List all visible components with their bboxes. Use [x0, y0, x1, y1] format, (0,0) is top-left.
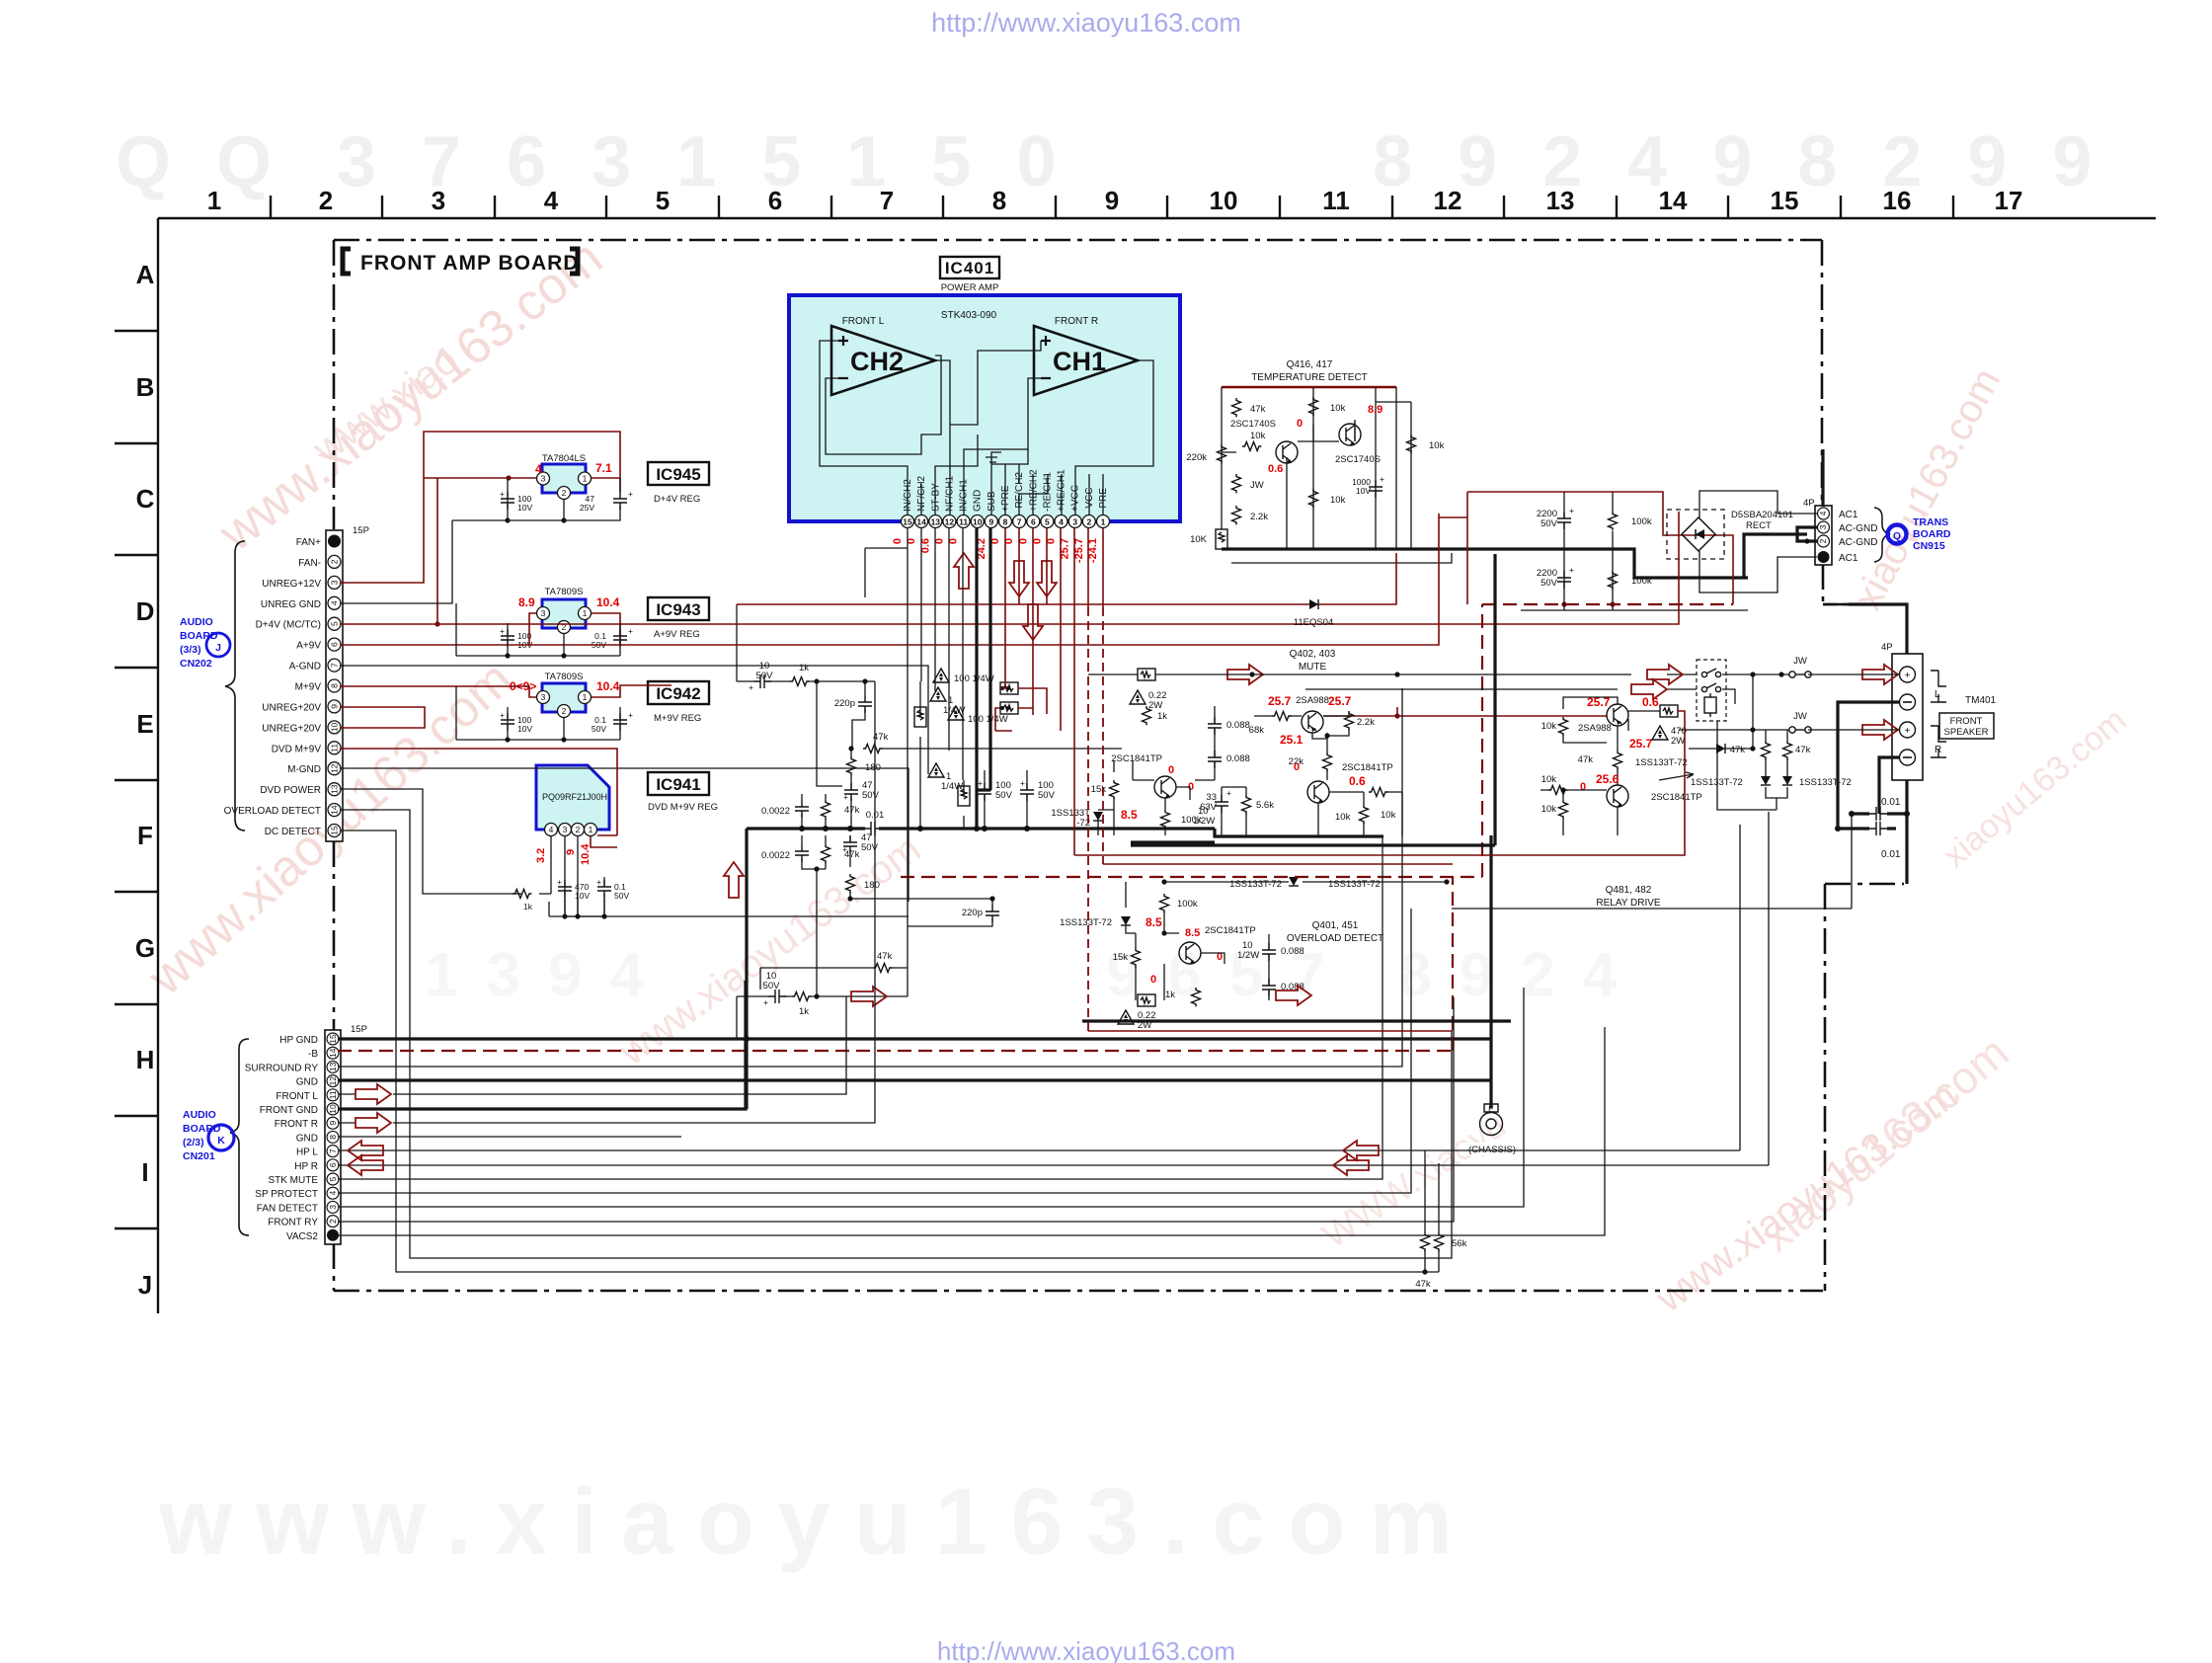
svg-text:17: 17 — [1995, 186, 2023, 215]
svg-text:4: 4 — [544, 186, 559, 215]
svg-text:9: 9 — [565, 849, 577, 855]
svg-text:+: + — [628, 489, 633, 499]
svg-text:2SC1841TP: 2SC1841TP — [1342, 762, 1393, 773]
svg-text:A-GND: A-GND — [289, 662, 321, 673]
op-amp IC401 POWER AMP block — [789, 257, 1180, 521]
svg-text:3: 3 — [432, 186, 445, 215]
capacitor 0.01 series on bus — [864, 822, 882, 835]
svg-text:3: 3 — [563, 825, 568, 834]
svg-text:http://www.xiaoyu163.com: http://www.xiaoyu163.com — [931, 8, 1241, 38]
svg-text:5: 5 — [1045, 517, 1050, 527]
svg-text:14: 14 — [328, 1048, 338, 1058]
svg-text:JW: JW — [1793, 656, 1807, 667]
svg-text:DC DETECT: DC DETECT — [265, 827, 321, 837]
svg-text:15k: 15k — [1091, 784, 1107, 795]
input network CH2 lower (left of pins) — [724, 794, 999, 1039]
svg-text:47k: 47k — [877, 951, 893, 962]
svg-text:0.088: 0.088 — [1281, 946, 1304, 957]
svg-text:DVD POWER: DVD POWER — [260, 785, 321, 796]
svg-text:50V: 50V — [1038, 790, 1056, 801]
svg-text:2SC1841TP: 2SC1841TP — [1111, 753, 1162, 764]
svg-text:-B: -B — [308, 1049, 318, 1060]
wire mute to relay 25.7 — [1323, 707, 1607, 716]
resistor 47k lowest — [873, 964, 892, 973]
wire IC941 pins — [340, 789, 604, 916]
svg-text:1k: 1k — [523, 902, 533, 911]
capacitor 47/50V lower — [843, 835, 857, 853]
svg-text:5: 5 — [330, 621, 340, 626]
svg-text:3: 3 — [541, 608, 546, 618]
svg-text:SPEAKER: SPEAKER — [1944, 727, 1989, 738]
wire base Q417 — [1298, 425, 1339, 441]
wire caps to returns — [1838, 814, 1907, 829]
svg-text:RELAY DRIVE: RELAY DRIVE — [1596, 898, 1661, 909]
svg-text:9: 9 — [1105, 186, 1119, 215]
svg-text:13: 13 — [1546, 186, 1575, 215]
svg-text:9: 9 — [330, 704, 340, 709]
wire STK MUTE run — [338, 835, 1382, 1179]
wire FRONT RY run — [338, 997, 1454, 1222]
capacitor 0.01 lower — [1869, 822, 1901, 860]
capacitor 220p lower — [986, 905, 999, 922]
svg-text:11: 11 — [959, 517, 968, 527]
svg-text:7: 7 — [880, 186, 894, 215]
svg-text:0.01: 0.01 — [1881, 849, 1901, 860]
wire 11EQS04 line — [737, 553, 1396, 604]
svg-text:100 1/4W: 100 1/4W — [954, 673, 994, 684]
svg-text:FRONT RY: FRONT RY — [268, 1218, 318, 1228]
svg-text:10k: 10k — [1541, 721, 1557, 732]
svg-text:25.7: 25.7 — [1328, 694, 1352, 708]
wire 2200 caps rails — [1467, 492, 1733, 604]
svg-text:50V: 50V — [592, 724, 606, 734]
svg-text:+: + — [1905, 671, 1911, 681]
resistor 1k mute left — [1143, 706, 1168, 725]
svg-text:5: 5 — [656, 186, 670, 215]
svg-text:16: 16 — [1883, 186, 1912, 215]
svg-text:3: 3 — [1072, 517, 1077, 527]
overload detect Q451 — [1060, 877, 1449, 1031]
svg-text:+: + — [557, 877, 562, 887]
capacitor 0.01 upper — [1869, 797, 1901, 821]
svg-text:+: + — [842, 844, 847, 854]
arrow relay feed lower — [1631, 679, 1667, 699]
svg-text:220p: 220p — [962, 908, 983, 918]
svg-text:220p: 220p — [834, 698, 855, 709]
boxed resistors 1 1/4W near pins — [914, 681, 1056, 829]
svg-text:http://www.xiaoyu163.com: http://www.xiaoyu163.com — [937, 1636, 1235, 1663]
svg-text:2: 2 — [330, 559, 340, 564]
svg-text:Q402, 403: Q402, 403 — [1290, 649, 1336, 660]
svg-text:G: G — [135, 933, 155, 963]
resistor 0.22 2W boxed lower — [1138, 994, 1155, 1006]
svg-text:10k: 10k — [1335, 812, 1351, 823]
svg-text:0: 0 — [1294, 761, 1300, 773]
svg-text:SUB: SUB — [987, 491, 997, 512]
resistor 47k — [1232, 398, 1241, 417]
svg-text:2: 2 — [1818, 538, 1828, 543]
svg-text:13: 13 — [931, 517, 941, 527]
capacitor 100/10V at IC942 — [500, 710, 532, 734]
svg-text:7: 7 — [328, 1148, 338, 1153]
svg-text:12: 12 — [1434, 186, 1462, 215]
svg-text:15: 15 — [1771, 186, 1799, 215]
svg-text:11: 11 — [328, 1090, 338, 1099]
svg-text:F: F — [137, 821, 153, 850]
svg-text:0: 0 — [1297, 418, 1303, 430]
svg-text:10: 10 — [973, 517, 983, 527]
svg-text:50V: 50V — [1540, 518, 1558, 529]
svg-text:CH1: CH1 — [1053, 347, 1106, 376]
svg-text:4: 4 — [1818, 511, 1828, 515]
svg-text:+: + — [1226, 788, 1231, 798]
svg-text:50V: 50V — [763, 981, 781, 991]
wire FAN DETECT run — [338, 988, 1524, 1207]
capacitor 2200/50V upper — [1537, 506, 1574, 529]
svg-text:4P: 4P — [1803, 498, 1815, 509]
diodes 1SS133T-72 near relay — [1635, 730, 1756, 768]
svg-text:HP GND: HP GND — [279, 1035, 318, 1046]
svg-text:+PRE: +PRE — [1000, 485, 1011, 512]
svg-text:8: 8 — [1003, 517, 1008, 527]
svg-text:HP R: HP R — [294, 1161, 318, 1172]
resistor 5.6k — [1242, 795, 1275, 814]
svg-text:2SC1740S: 2SC1740S — [1230, 419, 1276, 430]
svg-text:IC943: IC943 — [656, 600, 700, 619]
wire IC945 gnd rail — [340, 478, 620, 603]
wire FRONT GND run — [338, 981, 746, 1109]
arrow mute row — [1227, 665, 1263, 684]
svg-text:JW: JW — [1250, 480, 1264, 491]
svg-text:+: + — [628, 626, 633, 636]
svg-text:11EQS04: 11EQS04 — [1294, 617, 1334, 628]
wire DVD M+9V — [340, 749, 617, 847]
resistor 47k pair + diodes right — [1659, 721, 1852, 810]
capacitor 0.1/50V at IC942 — [592, 710, 633, 734]
resistor 100k upper — [1609, 512, 1652, 530]
svg-text:J: J — [138, 1270, 152, 1300]
arrow to speaker R — [1862, 720, 1898, 740]
watermark pink diagonals — [136, 229, 2133, 1321]
svg-text:12: 12 — [330, 763, 340, 773]
svg-text:+: + — [749, 682, 753, 692]
svg-text:2SA988: 2SA988 — [1578, 723, 1612, 734]
svg-text:14: 14 — [1659, 186, 1688, 215]
svg-text:C: C — [136, 484, 155, 514]
connector Q TRANS BOARD CN915 4P — [1803, 498, 1951, 565]
wire upper network — [737, 604, 1122, 829]
capacitor 470/10V at IC941 — [557, 877, 590, 901]
svg-text:10k: 10k — [1250, 431, 1266, 441]
svg-text:0.088: 0.088 — [1226, 753, 1250, 764]
wire IC943 loop — [340, 514, 1467, 645]
capacitor 33/63V — [1200, 788, 1231, 813]
svg-text:0: 0 — [1168, 764, 1174, 776]
wire UNREG+20V loop — [340, 707, 425, 728]
svg-text:25.7: 25.7 — [1629, 737, 1653, 751]
svg-text:+: + — [843, 792, 848, 802]
svg-text:4: 4 — [330, 600, 340, 605]
arrow overload right — [1276, 986, 1311, 1005]
board border dash-dot — [334, 240, 1904, 1291]
svg-text:4: 4 — [1059, 517, 1064, 527]
capacitor 100/10V at IC943 — [500, 626, 532, 650]
svg-text:0.01: 0.01 — [1881, 797, 1901, 808]
arrow relay feed upper — [1647, 665, 1683, 684]
svg-text:2.2k: 2.2k — [1250, 512, 1268, 522]
svg-text:FRONT AMP BOARD: FRONT AMP BOARD — [360, 252, 580, 275]
resistor 2.2k — [1232, 506, 1241, 524]
svg-text:1: 1 — [583, 474, 588, 484]
arrow right lower row — [851, 987, 887, 1006]
svg-text:OVERLOAD DETECT: OVERLOAD DETECT — [1287, 933, 1383, 944]
svg-text:10k: 10k — [1330, 495, 1346, 506]
svg-text:+: + — [1380, 474, 1384, 484]
svg-text:1: 1 — [1101, 517, 1106, 527]
svg-text:10k: 10k — [1429, 440, 1445, 451]
svg-text:1SS133T-72: 1SS133T-72 — [1328, 879, 1381, 890]
svg-text:POWER AMP: POWER AMP — [941, 282, 999, 293]
resistor 1k lower — [1192, 988, 1201, 1006]
svg-text:1SS133T-72: 1SS133T-72 — [1635, 757, 1688, 768]
capacitor 2200/50V lower — [1537, 565, 1574, 589]
svg-text:SP PROTECT: SP PROTECT — [255, 1189, 318, 1200]
capacitor 100/10V at IC945 — [500, 489, 532, 513]
wire -B dashed run — [338, 604, 1733, 1051]
wire temp rails — [1222, 386, 1396, 389]
resistor JW — [1232, 474, 1241, 493]
svg-text:CN201: CN201 — [183, 1150, 215, 1162]
svg-text:UNREG+20V: UNREG+20V — [262, 723, 321, 734]
connector K CN201 (15P) — [183, 1024, 367, 1244]
svg-text:2SC1841TP: 2SC1841TP — [1651, 792, 1702, 803]
svg-text:H: H — [136, 1045, 155, 1074]
svg-text:D: D — [136, 596, 155, 626]
svg-text:0.088: 0.088 — [1226, 720, 1250, 731]
svg-text:IC401: IC401 — [945, 259, 994, 277]
boxed resistors 100 1/4W horizontal pair — [933, 669, 1018, 725]
svg-text:14: 14 — [330, 805, 340, 815]
svg-text:13: 13 — [330, 784, 340, 794]
wire HP R run — [338, 812, 1769, 1165]
svg-text:8.9: 8.9 — [1368, 404, 1382, 416]
svg-text:AC-GND: AC-GND — [1839, 523, 1877, 534]
resistor 47k v — [822, 800, 830, 819]
svg-text:A+9V REG: A+9V REG — [654, 629, 700, 640]
svg-text:D+4V REG: D+4V REG — [654, 494, 700, 505]
svg-text:3: 3 — [330, 580, 340, 585]
capacitor 10/50V lower + resistor 1k — [768, 990, 786, 1003]
svg-text:9: 9 — [328, 1121, 338, 1126]
svg-text:2SA988: 2SA988 — [1296, 695, 1329, 706]
svg-text:UNREG GND: UNREG GND — [261, 599, 321, 610]
svg-text:Q481, 482: Q481, 482 — [1606, 885, 1652, 896]
svg-text:25.7: 25.7 — [1268, 694, 1292, 708]
wire GND run — [338, 1078, 1491, 1081]
svg-text:6: 6 — [768, 186, 782, 215]
svg-text:2: 2 — [576, 825, 581, 834]
down arrows below IC401 — [1009, 561, 1029, 596]
svg-text:SURROUND RY: SURROUND RY — [245, 1063, 319, 1073]
ground sub symbol inside IC401 — [986, 452, 1001, 464]
connector J CN202 (15P) — [180, 525, 369, 841]
svg-text:25V: 25V — [580, 503, 594, 513]
svg-text:+: + — [500, 626, 505, 636]
svg-text:E: E — [136, 709, 153, 739]
svg-text:+: + — [763, 997, 768, 1007]
svg-text:10k: 10k — [1541, 774, 1557, 785]
resistor 220k — [1218, 444, 1226, 463]
svg-text:FRONT L: FRONT L — [276, 1091, 318, 1102]
wire speaker L - return — [1838, 702, 1899, 829]
svg-text:J: J — [215, 642, 221, 654]
resistor 1k at IC941 — [513, 890, 533, 912]
svg-text:11: 11 — [330, 744, 340, 752]
svg-text:15: 15 — [903, 517, 912, 527]
svg-text:9: 9 — [988, 517, 993, 527]
svg-text:14: 14 — [916, 517, 926, 527]
svg-text:IN/CH2: IN/CH2 — [903, 479, 913, 512]
transistor Q401 2SC1841TP (left mid) — [1051, 753, 1215, 835]
svg-text:+RE/CH1: +RE/CH1 — [1057, 469, 1067, 512]
wire HP L run — [338, 825, 1740, 1150]
svg-text:BOARD: BOARD — [1913, 528, 1951, 540]
svg-text:15P: 15P — [353, 525, 369, 536]
resistor 10K box — [1216, 529, 1227, 549]
svg-text:3.2: 3.2 — [535, 848, 547, 863]
svg-text:(2/3): (2/3) — [183, 1137, 204, 1148]
capacitor 0.1/50V at IC943 — [592, 626, 633, 650]
svg-text:6: 6 — [328, 1162, 338, 1167]
svg-text:Q416, 417: Q416, 417 — [1287, 359, 1333, 370]
svg-text:0: 0 — [892, 538, 904, 544]
svg-text:10V: 10V — [1356, 486, 1371, 496]
svg-text:1: 1 — [207, 186, 221, 215]
svg-text:-PRE: -PRE — [1098, 488, 1109, 512]
capacitor 47/50V — [844, 783, 858, 801]
svg-text:15k: 15k — [1113, 952, 1129, 963]
svg-text:0.6: 0.6 — [1642, 695, 1659, 709]
svg-text:7.1: 7.1 — [595, 461, 612, 475]
resistor 10k base — [1242, 442, 1261, 451]
regulator IC943 TA7809S — [518, 587, 709, 640]
svg-text:13: 13 — [328, 1062, 338, 1071]
svg-text:2W: 2W — [1671, 736, 1685, 747]
capacitor 10/50V — [753, 674, 771, 688]
svg-text:GND: GND — [296, 1077, 318, 1088]
svg-text:+: + — [1905, 726, 1911, 737]
wire buses mid — [1131, 554, 1495, 845]
svg-text:+: + — [596, 877, 601, 887]
wire FRONT L run — [338, 996, 846, 1094]
svg-text:8: 8 — [992, 186, 1006, 215]
svg-text:B: B — [136, 372, 155, 402]
resistors 56k pair — [1415, 1150, 1466, 1290]
svg-text:47k: 47k — [1250, 404, 1266, 415]
resistor 180 lower — [846, 874, 855, 893]
svg-text:47k: 47k — [1730, 745, 1746, 755]
svg-text:50V: 50V — [995, 790, 1013, 801]
svg-text:2: 2 — [319, 186, 333, 215]
wire speaker R + feed — [1679, 674, 1899, 730]
wire VACS2 run — [338, 1027, 1605, 1235]
capacitor 220p — [858, 695, 872, 713]
svg-text:www.xiaoyu163.com: www.xiaoyu163.com — [158, 1469, 1476, 1574]
wire GND2 stub — [338, 1136, 681, 1138]
op-amp CH2 (FRONT L) — [831, 316, 935, 395]
svg-text:15: 15 — [330, 826, 340, 835]
svg-text:TA7804LS: TA7804LS — [542, 453, 586, 464]
svg-text:56k: 56k — [1452, 1238, 1467, 1249]
svg-text:1: 1 — [583, 692, 588, 702]
svg-text:0: 0 — [1580, 781, 1586, 793]
wire trans board feeds — [1821, 449, 1824, 507]
wire FRONT R run — [338, 681, 875, 1123]
svg-text:3: 3 — [541, 692, 546, 702]
svg-text:4: 4 — [328, 1191, 338, 1196]
svg-text:OVERLOAD DETECT: OVERLOAD DETECT — [224, 806, 321, 817]
svg-text:+: + — [500, 710, 505, 720]
svg-text:Q401, 451: Q401, 451 — [1312, 920, 1359, 931]
svg-text:1k: 1k — [799, 1006, 809, 1017]
svg-text:100 1/4W: 100 1/4W — [968, 714, 1008, 725]
svg-text:10: 10 — [330, 722, 340, 732]
svg-text:0.0022: 0.0022 — [761, 806, 790, 817]
svg-text:2: 2 — [562, 706, 567, 716]
resistor 1k — [790, 677, 809, 686]
svg-text:7: 7 — [330, 663, 340, 668]
svg-text:100k: 100k — [1631, 576, 1652, 587]
svg-text:D5SBA204101: D5SBA204101 — [1731, 510, 1793, 520]
svg-text:-RE/CH1: -RE/CH1 — [1042, 472, 1053, 512]
svg-text:JW: JW — [1793, 711, 1807, 722]
svg-text:25.1: 25.1 — [1280, 733, 1303, 747]
wire IC945 loop dark red — [340, 432, 620, 624]
wire IC942 loop — [340, 685, 671, 697]
capacitor 0.1/50V at IC941 — [596, 877, 629, 901]
svg-text:0.6: 0.6 — [1268, 463, 1283, 475]
svg-text:10k: 10k — [1330, 403, 1346, 414]
svg-text:10k: 10k — [1541, 804, 1557, 815]
wire SP PROTECT run — [338, 909, 1411, 1193]
svg-text:6: 6 — [330, 642, 340, 647]
svg-text:4P: 4P — [1881, 642, 1893, 653]
svg-text:10K: 10K — [1190, 534, 1208, 545]
svg-text:1SS133T-72: 1SS133T-72 — [1799, 777, 1852, 788]
svg-text:M+9V REG: M+9V REG — [654, 713, 701, 724]
op-amp CH1 (FRONT R) — [1034, 316, 1138, 395]
svg-text:FRONT R: FRONT R — [1055, 316, 1098, 327]
svg-text:+: + — [978, 778, 983, 788]
svg-text:47k: 47k — [1795, 745, 1811, 755]
svg-text:VACS2: VACS2 — [286, 1231, 318, 1242]
svg-text:5.6k: 5.6k — [1256, 800, 1274, 811]
capacitor 0.0022 — [795, 800, 809, 818]
svg-text:Q: Q — [1893, 530, 1901, 542]
svg-text:0.6: 0.6 — [1349, 774, 1366, 788]
svg-text:4: 4 — [535, 462, 542, 476]
svg-text:CH2: CH2 — [850, 347, 904, 376]
svg-text:FRONT: FRONT — [1950, 716, 1983, 727]
svg-text:10: 10 — [1210, 186, 1238, 215]
svg-text:50V: 50V — [861, 842, 879, 853]
top ruler — [158, 218, 2156, 1313]
transistor Q417 2SC1740S — [1339, 424, 1361, 445]
jumper JW on speaker L line — [1789, 656, 1811, 677]
resistor 10k right — [1407, 435, 1416, 453]
capacitor 47/25V at IC945 — [580, 489, 633, 513]
svg-text:8: 8 — [330, 683, 340, 688]
